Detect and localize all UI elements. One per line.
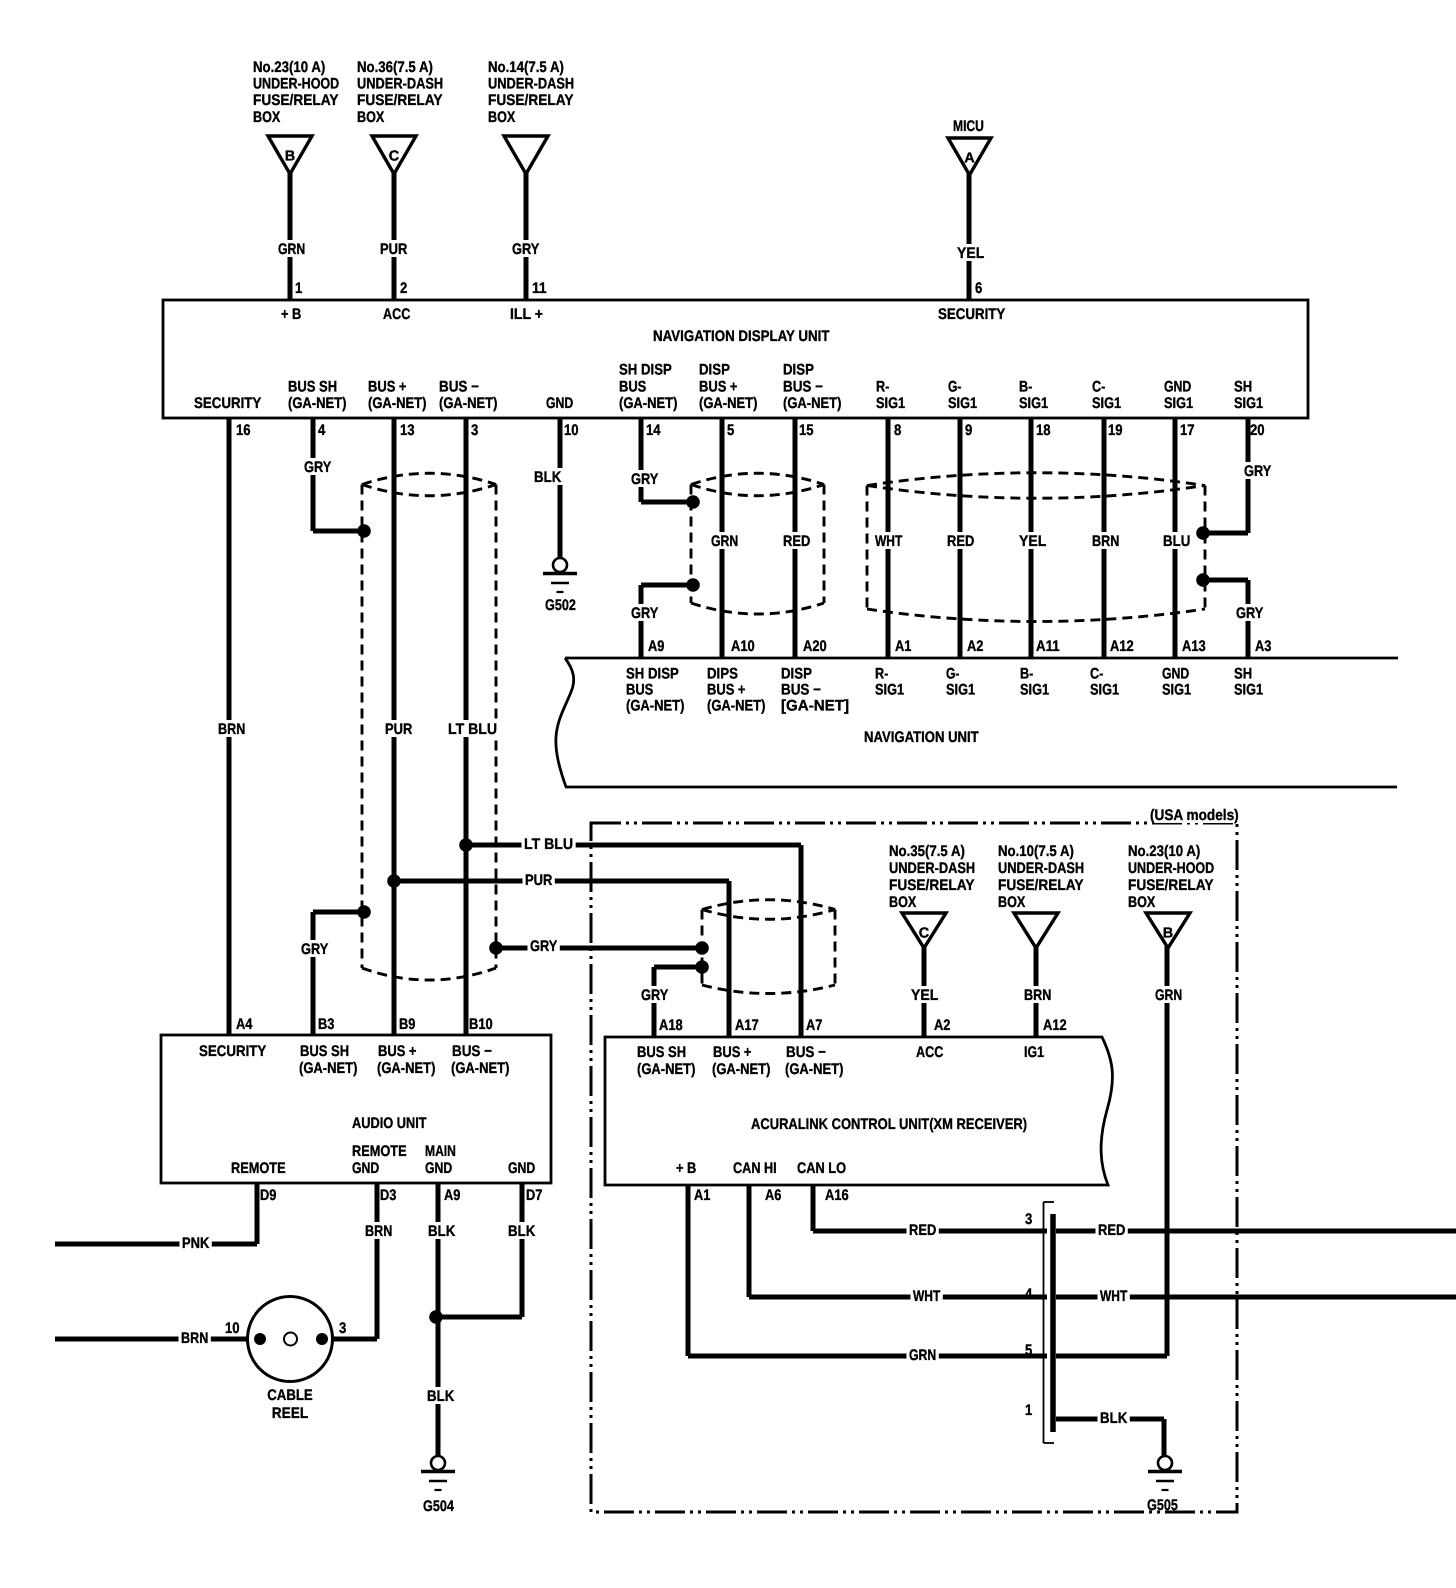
svg-text:B9: B9 bbox=[399, 1016, 415, 1033]
svg-text:NAVIGATION UNIT: NAVIGATION UNIT bbox=[864, 729, 979, 746]
svg-text:BUS +: BUS + bbox=[707, 682, 746, 699]
svg-text:A9: A9 bbox=[444, 1187, 460, 1204]
svg-text:A2: A2 bbox=[934, 1017, 950, 1034]
svg-text:LT BLU: LT BLU bbox=[524, 836, 573, 853]
svg-text:1: 1 bbox=[295, 280, 303, 297]
svg-text:A12: A12 bbox=[1110, 638, 1134, 655]
svg-text:D9: D9 bbox=[260, 1187, 276, 1204]
svg-text:GRY: GRY bbox=[641, 987, 668, 1004]
svg-text:SECURITY: SECURITY bbox=[199, 1043, 266, 1060]
svg-text:ACURALINK CONTROL UNIT(XM RECE: ACURALINK CONTROL UNIT(XM RECEIVER) bbox=[751, 1116, 1027, 1133]
svg-text:17: 17 bbox=[1180, 422, 1195, 439]
svg-text:BOX: BOX bbox=[889, 894, 917, 911]
svg-text:A7: A7 bbox=[806, 1017, 822, 1034]
svg-text:10: 10 bbox=[564, 422, 579, 439]
svg-text:GRY: GRY bbox=[631, 471, 658, 488]
svg-text:B: B bbox=[285, 149, 295, 165]
svg-text:FUSE/RELAY: FUSE/RELAY bbox=[998, 877, 1084, 894]
svg-text:13: 13 bbox=[400, 422, 415, 439]
svg-text:A: A bbox=[964, 151, 975, 167]
svg-text:GRY: GRY bbox=[1236, 605, 1263, 622]
svg-text:A11: A11 bbox=[1036, 638, 1060, 655]
svg-text:BUS +: BUS + bbox=[713, 1044, 752, 1061]
svg-text:ACC: ACC bbox=[916, 1044, 943, 1061]
svg-text:SIG1: SIG1 bbox=[1020, 682, 1050, 699]
svg-text:BRN: BRN bbox=[365, 1223, 392, 1240]
svg-text:R-: R- bbox=[875, 666, 888, 683]
svg-text:CAN LO: CAN LO bbox=[797, 1160, 846, 1177]
svg-text:BUS +: BUS + bbox=[378, 1043, 417, 1060]
svg-text:A17: A17 bbox=[735, 1017, 759, 1034]
svg-text:CAN HI: CAN HI bbox=[733, 1160, 777, 1177]
svg-text:(GA-NET): (GA-NET) bbox=[637, 1061, 695, 1078]
svg-text:A6: A6 bbox=[765, 1187, 781, 1204]
svg-text:CABLE: CABLE bbox=[267, 1387, 313, 1404]
svg-text:G504: G504 bbox=[423, 1498, 454, 1515]
svg-text:3: 3 bbox=[471, 422, 478, 439]
svg-text:GRY: GRY bbox=[530, 938, 557, 955]
svg-text:BOX: BOX bbox=[253, 109, 281, 126]
svg-text:PUR: PUR bbox=[380, 241, 407, 258]
svg-text:RED: RED bbox=[1098, 1222, 1125, 1239]
svg-text:BLK: BLK bbox=[1100, 1410, 1127, 1427]
svg-text:BOX: BOX bbox=[998, 894, 1026, 911]
svg-text:BRN: BRN bbox=[218, 721, 245, 738]
svg-text:SH DISP: SH DISP bbox=[626, 666, 679, 683]
svg-text:BOX: BOX bbox=[357, 109, 385, 126]
svg-text:A3: A3 bbox=[1255, 638, 1271, 655]
svg-text:GND: GND bbox=[352, 1160, 379, 1177]
svg-text:SIG1: SIG1 bbox=[1019, 395, 1049, 412]
svg-text:DIPS: DIPS bbox=[707, 666, 738, 683]
svg-text:BUS −: BUS − bbox=[781, 682, 821, 699]
svg-text:(GA-NET): (GA-NET) bbox=[626, 698, 684, 715]
svg-text:[GA-NET]: [GA-NET] bbox=[781, 698, 849, 715]
svg-text:RED: RED bbox=[783, 533, 810, 550]
svg-text:A4: A4 bbox=[236, 1016, 253, 1033]
svg-text:A16: A16 bbox=[825, 1187, 849, 1204]
svg-text:A9: A9 bbox=[648, 638, 664, 655]
svg-text:A20: A20 bbox=[803, 638, 827, 655]
svg-text:(GA-NET): (GA-NET) bbox=[712, 1061, 770, 1078]
svg-text:UNDER-DASH: UNDER-DASH bbox=[998, 860, 1084, 877]
svg-text:2: 2 bbox=[400, 280, 407, 297]
svg-text:FUSE/RELAY: FUSE/RELAY bbox=[1128, 877, 1214, 894]
svg-text:(GA-NET): (GA-NET) bbox=[299, 1060, 357, 1077]
svg-text:SIG1: SIG1 bbox=[1164, 395, 1194, 412]
svg-text:SIG1: SIG1 bbox=[948, 395, 978, 412]
svg-text:GRY: GRY bbox=[304, 459, 331, 476]
svg-text:PUR: PUR bbox=[385, 721, 412, 738]
svg-text:(GA-NET): (GA-NET) bbox=[783, 395, 841, 412]
svg-text:(USA models): (USA models) bbox=[1150, 807, 1239, 824]
svg-text:No.10(7.5 A): No.10(7.5 A) bbox=[998, 843, 1074, 860]
svg-text:BUS −: BUS − bbox=[786, 1044, 826, 1061]
svg-text:R-: R- bbox=[876, 379, 889, 396]
svg-text:REMOTE: REMOTE bbox=[231, 1160, 286, 1177]
svg-text:IG1: IG1 bbox=[1024, 1044, 1044, 1061]
svg-text:16: 16 bbox=[236, 422, 251, 439]
svg-text:(GA-NET): (GA-NET) bbox=[451, 1060, 509, 1077]
svg-text:(GA-NET): (GA-NET) bbox=[288, 395, 346, 412]
svg-text:No.14(7.5 A): No.14(7.5 A) bbox=[488, 59, 564, 76]
svg-text:BOX: BOX bbox=[1128, 894, 1156, 911]
svg-text:SIG1: SIG1 bbox=[946, 682, 976, 699]
svg-text:BUS: BUS bbox=[619, 379, 646, 396]
svg-text:A12: A12 bbox=[1043, 1017, 1067, 1034]
svg-text:(GA-NET): (GA-NET) bbox=[439, 395, 497, 412]
svg-text:BUS SH: BUS SH bbox=[288, 379, 337, 396]
svg-text:PNK: PNK bbox=[182, 1235, 209, 1252]
svg-text:UNDER-HOOD: UNDER-HOOD bbox=[253, 76, 339, 93]
svg-text:(GA-NET): (GA-NET) bbox=[707, 698, 765, 715]
svg-text:A18: A18 bbox=[659, 1017, 683, 1034]
svg-text:MICU: MICU bbox=[953, 118, 984, 135]
svg-text:BRN: BRN bbox=[1024, 987, 1051, 1004]
svg-text:A1: A1 bbox=[694, 1187, 711, 1204]
svg-text:UNDER-DASH: UNDER-DASH bbox=[889, 860, 975, 877]
svg-text:MAIN: MAIN bbox=[425, 1143, 456, 1160]
svg-text:WHT: WHT bbox=[913, 1288, 941, 1305]
svg-text:5: 5 bbox=[727, 422, 735, 439]
svg-text:BUS +: BUS + bbox=[368, 379, 407, 396]
svg-text:WHT: WHT bbox=[1100, 1288, 1128, 1305]
svg-text:BUS −: BUS − bbox=[439, 379, 479, 396]
svg-text:GND: GND bbox=[425, 1160, 452, 1177]
svg-text:GRN: GRN bbox=[1155, 987, 1182, 1004]
svg-text:GRY: GRY bbox=[631, 605, 658, 622]
svg-text:AUDIO UNIT: AUDIO UNIT bbox=[352, 1115, 427, 1132]
svg-text:3: 3 bbox=[339, 1320, 346, 1337]
svg-text:YEL: YEL bbox=[911, 987, 938, 1004]
svg-text:BRN: BRN bbox=[1092, 533, 1119, 550]
svg-text:BLK: BLK bbox=[534, 469, 561, 486]
svg-text:ILL +: ILL + bbox=[510, 306, 543, 323]
svg-text:SIG1: SIG1 bbox=[1234, 395, 1264, 412]
svg-text:RED: RED bbox=[909, 1222, 936, 1239]
svg-text:BLU: BLU bbox=[1163, 533, 1190, 550]
svg-text:BUS +: BUS + bbox=[699, 379, 738, 396]
svg-text:SIG1: SIG1 bbox=[1090, 682, 1120, 699]
svg-text:9: 9 bbox=[965, 422, 972, 439]
svg-text:DISP: DISP bbox=[783, 362, 814, 379]
svg-text:B-: B- bbox=[1020, 666, 1033, 683]
svg-text:C-: C- bbox=[1092, 379, 1105, 396]
svg-text:G-: G- bbox=[948, 379, 961, 396]
svg-text:BUS SH: BUS SH bbox=[637, 1044, 686, 1061]
svg-text:UNDER-DASH: UNDER-DASH bbox=[357, 76, 443, 93]
svg-text:B-: B- bbox=[1019, 379, 1032, 396]
svg-text:No.23(10 A): No.23(10 A) bbox=[1128, 843, 1200, 860]
svg-text:FUSE/RELAY: FUSE/RELAY bbox=[889, 877, 975, 894]
svg-text:WHT: WHT bbox=[875, 533, 903, 550]
svg-text:(GA-NET): (GA-NET) bbox=[368, 395, 426, 412]
svg-text:11: 11 bbox=[532, 280, 547, 297]
svg-text:8: 8 bbox=[894, 422, 902, 439]
svg-text:(GA-NET): (GA-NET) bbox=[699, 395, 757, 412]
svg-text:1: 1 bbox=[1025, 1402, 1033, 1419]
svg-text:SIG1: SIG1 bbox=[1092, 395, 1122, 412]
svg-text:(GA-NET): (GA-NET) bbox=[785, 1061, 843, 1078]
svg-text:G-: G- bbox=[946, 666, 959, 683]
svg-text:A1: A1 bbox=[895, 638, 912, 655]
svg-text:BLK: BLK bbox=[427, 1388, 454, 1405]
svg-text:+ B: + B bbox=[676, 1160, 696, 1177]
svg-text:SIG1: SIG1 bbox=[875, 682, 905, 699]
svg-text:REEL: REEL bbox=[272, 1405, 308, 1422]
svg-text:FUSE/RELAY: FUSE/RELAY bbox=[357, 92, 443, 109]
svg-text:G505: G505 bbox=[1147, 1497, 1178, 1514]
svg-text:BOX: BOX bbox=[488, 109, 516, 126]
svg-text:BLK: BLK bbox=[508, 1223, 535, 1240]
svg-text:C: C bbox=[389, 149, 400, 165]
svg-text:C-: C- bbox=[1090, 666, 1103, 683]
svg-text:6: 6 bbox=[975, 280, 982, 297]
svg-text:NAVIGATION DISPLAY UNIT: NAVIGATION DISPLAY UNIT bbox=[653, 328, 830, 345]
svg-text:No.35(7.5 A): No.35(7.5 A) bbox=[889, 843, 965, 860]
svg-text:ACC: ACC bbox=[383, 306, 410, 323]
svg-text:YEL: YEL bbox=[957, 245, 984, 262]
svg-text:GRY: GRY bbox=[1244, 463, 1271, 480]
svg-text:SECURITY: SECURITY bbox=[194, 395, 261, 412]
svg-text:SIG1: SIG1 bbox=[1162, 682, 1192, 699]
svg-text:C: C bbox=[919, 926, 930, 942]
svg-text:UNDER-DASH: UNDER-DASH bbox=[488, 76, 574, 93]
svg-text:20: 20 bbox=[1250, 422, 1265, 439]
svg-text:+ B: + B bbox=[281, 306, 301, 323]
svg-text:15: 15 bbox=[799, 422, 814, 439]
svg-text:DISP: DISP bbox=[699, 362, 730, 379]
svg-text:GND: GND bbox=[1164, 379, 1191, 396]
svg-text:14: 14 bbox=[646, 422, 661, 439]
svg-text:A2: A2 bbox=[967, 638, 983, 655]
svg-text:3: 3 bbox=[1025, 1211, 1032, 1228]
svg-text:BUS −: BUS − bbox=[783, 379, 823, 396]
svg-text:PUR: PUR bbox=[525, 872, 552, 889]
svg-text:SH: SH bbox=[1234, 666, 1252, 683]
svg-text:SECURITY: SECURITY bbox=[938, 306, 1005, 323]
svg-text:GRY: GRY bbox=[301, 941, 328, 958]
svg-text:(GA-NET): (GA-NET) bbox=[619, 395, 677, 412]
svg-text:GRN: GRN bbox=[278, 241, 305, 258]
svg-text:BRN: BRN bbox=[181, 1330, 208, 1347]
svg-text:4: 4 bbox=[1025, 1286, 1033, 1303]
svg-text:FUSE/RELAY: FUSE/RELAY bbox=[488, 92, 574, 109]
svg-text:B10: B10 bbox=[469, 1016, 493, 1033]
svg-text:No.36(7.5 A): No.36(7.5 A) bbox=[357, 59, 433, 76]
svg-text:B3: B3 bbox=[318, 1016, 334, 1033]
svg-text:A13: A13 bbox=[1182, 638, 1206, 655]
svg-text:GND: GND bbox=[546, 395, 573, 412]
svg-text:10: 10 bbox=[225, 1320, 240, 1337]
svg-text:REMOTE: REMOTE bbox=[352, 1143, 407, 1160]
svg-text:GRY: GRY bbox=[512, 241, 539, 258]
svg-text:19: 19 bbox=[1108, 422, 1123, 439]
svg-text:G502: G502 bbox=[545, 597, 576, 614]
svg-text:GRN: GRN bbox=[909, 1347, 936, 1364]
svg-text:BUS −: BUS − bbox=[452, 1043, 492, 1060]
svg-text:RED: RED bbox=[947, 533, 974, 550]
svg-text:YEL: YEL bbox=[1019, 533, 1046, 550]
svg-text:B: B bbox=[1163, 926, 1173, 942]
svg-text:BUS: BUS bbox=[626, 682, 653, 699]
svg-text:GND: GND bbox=[508, 1160, 535, 1177]
svg-text:SH: SH bbox=[1234, 379, 1252, 396]
svg-text:A10: A10 bbox=[731, 638, 755, 655]
svg-text:SIG1: SIG1 bbox=[1234, 682, 1264, 699]
svg-text:No.23(10 A): No.23(10 A) bbox=[253, 59, 325, 76]
svg-text:18: 18 bbox=[1036, 422, 1051, 439]
svg-text:(GA-NET): (GA-NET) bbox=[377, 1060, 435, 1077]
svg-text:LT BLU: LT BLU bbox=[448, 721, 497, 738]
svg-text:GRN: GRN bbox=[711, 533, 738, 550]
svg-text:DISP: DISP bbox=[781, 666, 812, 683]
svg-text:D3: D3 bbox=[380, 1187, 396, 1204]
svg-text:BUS SH: BUS SH bbox=[300, 1043, 349, 1060]
svg-text:GND: GND bbox=[1162, 666, 1189, 683]
svg-text:4: 4 bbox=[318, 422, 326, 439]
svg-text:BLK: BLK bbox=[428, 1223, 455, 1240]
svg-text:5: 5 bbox=[1025, 1342, 1033, 1359]
svg-text:UNDER-HOOD: UNDER-HOOD bbox=[1128, 860, 1214, 877]
svg-text:FUSE/RELAY: FUSE/RELAY bbox=[253, 92, 339, 109]
svg-text:SIG1: SIG1 bbox=[876, 395, 906, 412]
svg-text:SH DISP: SH DISP bbox=[619, 362, 672, 379]
svg-text:D7: D7 bbox=[526, 1187, 542, 1204]
